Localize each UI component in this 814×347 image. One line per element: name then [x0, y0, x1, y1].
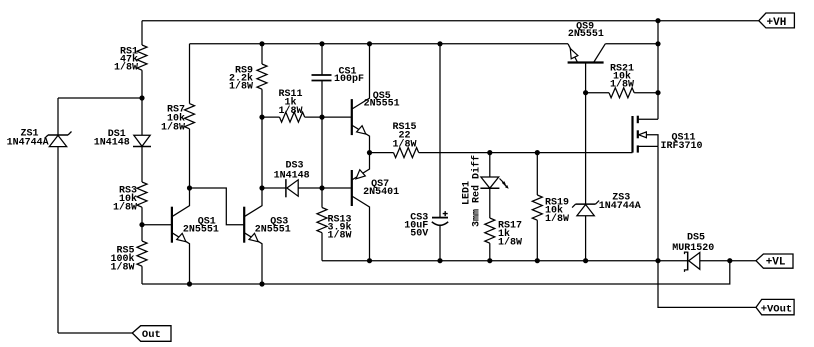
diode DS3: [262, 161, 322, 198]
transistor QS11: [633, 116, 703, 153]
wire +VH top rail: [142, 20, 759, 22]
junction QS7 collector / lower rail: [367, 258, 372, 263]
wire emitter node to RS15: [370, 152, 394, 154]
svg-text:1N4148: 1N4148: [274, 171, 310, 182]
svg-text:50V: 50V: [410, 229, 428, 240]
resistor RS5: [110, 225, 147, 284]
node RS1/DS1/ZS1 junction: [139, 95, 144, 100]
svg-text:100pF: 100pF: [334, 74, 364, 85]
svg-text:2N5551: 2N5551: [568, 29, 604, 40]
svg-text:2N5551: 2N5551: [364, 99, 400, 110]
svg-text:1/8W: 1/8W: [161, 122, 185, 134]
wire QS11 source down: [657, 146, 659, 260]
junction QS5/QS7 emitters: [367, 150, 372, 155]
label 3mm Red Diff (rotated): [470, 155, 482, 227]
LED LED1: [480, 153, 508, 218]
junction RS11 right / CS1 bottom: [319, 115, 324, 120]
junction RS9 top: [259, 41, 264, 46]
svg-text:MUR1520: MUR1520: [672, 243, 714, 254]
junction ZS3 bottom: [583, 258, 588, 263]
svg-text:Out: Out: [142, 329, 161, 341]
svg-text:1/8W: 1/8W: [229, 81, 253, 93]
wire ZS1 top to RS1 bottom node: [58, 97, 142, 99]
resistor RS1: [114, 21, 147, 98]
junction RS7 bottom / QS1 collector: [187, 185, 192, 190]
junction QS3 collector / DS3 left: [259, 185, 264, 190]
junction top rail / QS11 drain branch: [655, 18, 660, 23]
wire DS5 anode to +VL tag: [730, 260, 756, 262]
resistor RS17: [485, 218, 522, 261]
wire QS1 collector to QS3 base: [190, 188, 245, 225]
node Out tag: [132, 326, 171, 342]
junction DS3 right / RS13 top: [319, 185, 324, 190]
diode DS1: [94, 98, 151, 182]
junction QS3 emitter / bottom rail: [259, 281, 264, 286]
svg-text:1/8W: 1/8W: [392, 139, 416, 151]
junction RS19 top: [535, 150, 540, 155]
svg-text:+VH: +VH: [767, 17, 787, 29]
resistor RS3: [113, 182, 147, 225]
junction DS5 anode / +VL / bottom rail: [727, 258, 732, 263]
junction QS9 base / RS21 left / ZS3: [583, 90, 588, 95]
svg-text:1N4744A: 1N4744A: [599, 201, 641, 212]
capacitor CS1: [312, 44, 365, 117]
transistor QS3: [244, 188, 291, 284]
resistor RS13: [317, 188, 352, 261]
wire lower rail: [322, 260, 688, 262]
svg-text:1/8W: 1/8W: [545, 213, 569, 225]
wire gate row RS15 to QS11 gate: [419, 152, 633, 154]
transistor QS7: [352, 153, 399, 261]
junction QS9 collector / vertical: [655, 41, 660, 46]
junction CS3 top: [437, 41, 442, 46]
transistor QS5: [352, 44, 400, 153]
svg-text:1/8W: 1/8W: [110, 261, 134, 273]
resistor RS11: [262, 89, 322, 122]
svg-text:1N4148: 1N4148: [94, 137, 130, 148]
svg-text:1/8W: 1/8W: [113, 202, 137, 214]
diode DS5: [672, 233, 730, 272]
svg-text:1N4744A: 1N4744A: [7, 138, 49, 149]
junction RS19 bottom: [535, 258, 540, 263]
wire RS9 node down to DS3: [261, 117, 263, 188]
junction RS21 right: [655, 90, 660, 95]
wire bottom rail: [142, 261, 730, 284]
zener ZS3: [572, 93, 641, 261]
svg-text:2N5551: 2N5551: [183, 225, 219, 236]
svg-text:1/8W: 1/8W: [114, 62, 138, 74]
junction RS11 left: [259, 115, 264, 120]
resistor RS9: [229, 44, 267, 117]
junction QS11 source / lower rail: [655, 258, 660, 263]
node tag +VH: [759, 13, 795, 29]
svg-text:2N5401: 2N5401: [363, 187, 399, 198]
resistor RS15: [392, 122, 418, 158]
svg-text:1/8W: 1/8W: [498, 237, 522, 249]
junction CS3 bottom: [437, 258, 442, 263]
zener ZS1: [7, 98, 72, 333]
svg-text:2N5551: 2N5551: [255, 225, 291, 236]
junction QS5 collector / second rail: [367, 41, 372, 46]
resistor RS7: [161, 104, 195, 188]
wire source node to +VOut: [658, 261, 756, 308]
wire to Out tag: [58, 332, 132, 334]
capacitor CS3: [404, 44, 448, 261]
node tag +VL: [756, 254, 793, 269]
svg-text:3mm Red Diff: 3mm Red Diff: [470, 155, 482, 227]
transistor QS9: [568, 22, 606, 93]
wire left column down to RS7: [189, 44, 191, 104]
junction RS17 bottom: [487, 258, 492, 263]
wire QS5 base: [322, 116, 352, 118]
wire QS7 base: [322, 187, 352, 189]
junction QS1 emitter / bottom rail: [187, 281, 192, 286]
junction CS1 top: [319, 41, 324, 46]
svg-text:1/8W: 1/8W: [328, 230, 352, 242]
svg-text:IRF3710: IRF3710: [661, 141, 703, 152]
transistor QS1: [172, 188, 219, 284]
label LED1 (rotated): [461, 181, 472, 205]
node tag +VOut: [756, 299, 794, 315]
node QS1 base junction: [139, 222, 144, 227]
wire QS1 base: [142, 224, 172, 226]
svg-text:1/8W: 1/8W: [610, 79, 634, 91]
junction LED1 top: [487, 150, 492, 155]
svg-text:+VL: +VL: [766, 257, 786, 269]
wire second rail (QS9 emitter net): [190, 43, 569, 45]
wire QS9 collector to QS11 drain rail: [605, 43, 658, 45]
resistor RS21: [586, 64, 658, 98]
svg-text:+VOut: +VOut: [761, 303, 793, 315]
wire CS1/RS11 node down to DS3 right: [321, 117, 323, 188]
svg-text:1/8W: 1/8W: [278, 105, 302, 117]
resistor RS19: [532, 153, 569, 261]
wire +VH vertical to QS11 drain: [657, 21, 659, 120]
